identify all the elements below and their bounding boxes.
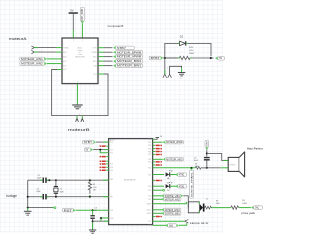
svg-text:1: 1 [167,68,168,70]
ground GND2 [178,73,185,76]
SECTION-TOP [9,7,225,132]
wire MOTEUR_AIN1 to U1 [47,58,62,60]
svg-text:TB6612FNG: TB6612FNG [75,56,86,58]
svg-text:1k: 1k [206,198,208,200]
net label MOTEUR_AIN2-2 [163,158,184,162]
svg-text:PD0: PD0 [148,159,151,161]
LED D4 [153,182,177,189]
wire label to U1 pin PWMB [81,23,83,38]
wire U1 to net BIN2 [98,60,104,62]
wire U1 PWMB to net [98,51,104,53]
wire U2 to inline 1k [153,224,166,226]
diode D2 [178,41,188,46]
wire C5 to ground [92,219,94,230]
svg-text:XT1: XT1 [148,221,151,223]
wire moteurA-2 to U1 [34,51,56,53]
svg-text:horloge: horloge [6,194,17,198]
junction node A [164,57,166,59]
wire C3 top [206,150,208,157]
wire R7 to R4 [212,207,231,209]
net label MOTEUR_AIN1 [20,57,47,61]
svg-text:PB4: PB4 [148,151,151,153]
svg-text:prise jack: prise jack [241,211,255,215]
wire node A up to diode D2 [165,43,180,58]
net label MOTEUR_AIN2 [20,62,47,66]
capacitor C1 [43,178,47,183]
LED D5 [153,170,177,177]
svg-text:Lampe de tir: Lampe de tir [190,221,209,225]
svg-text:MOTEUR_BIN2: MOTEUR_BIN2 [117,60,142,63]
svg-text:moteurB: moteurB [68,128,90,132]
resistor R4 [231,206,239,209]
label R4 [242,200,247,205]
net label SORTIE_HP (rotated) [190,170,194,198]
power 5V mini at U2 [153,138,155,140]
wire RESET to U2 [76,209,109,211]
wire C5 node to U2 XT2 [93,220,109,222]
wire crystal bottom stub [55,194,57,197]
wire XTAL1 rail [28,179,43,181]
wire stub with end [153,189,163,191]
svg-text:MOTEUR_APW1: MOTEUR_APW1 [165,209,181,212]
label R7 [216,201,220,206]
svg-text:PD3: PD3 [148,174,151,176]
wire C3 bottom [206,161,208,168]
label C2 22pF [36,188,41,193]
wire U1 GND pin down [76,84,78,105]
wire reset to C5 [92,210,94,215]
wire U2 to lamp pin [153,220,185,222]
svg-text:PB6: PB6 [110,179,113,181]
resistor R5 vertical [88,180,91,194]
LED D3 lamp [199,204,204,212]
svg-text:Haut-Parleur: Haut-Parleur [247,146,263,150]
label R6 [195,164,198,168]
net label 1k inline [165,224,179,228]
svg-text:PB5: PB5 [148,154,151,156]
net label MOTEUR_APWM1 [161,208,181,212]
junction C3 bottom [206,167,208,169]
resistor R13 [166,56,210,59]
junction left rail [27,196,29,198]
svg-text:PC6: PC6 [110,210,113,212]
svg-text:1kΩ: 1kΩ [169,225,173,227]
svg-text:MOTEUR_AIN2: MOTEUR_AIN2 [165,198,181,201]
pushbutton BT1 pin 1 [163,74,167,78]
junction [99,149,101,151]
svg-text:PD7: PD7 [148,199,151,201]
wire speaker rail [153,167,196,169]
svg-text:XT2: XT2 [148,225,151,227]
wire speaker bottom pin [221,167,228,169]
wire horloge bottom stub [28,207,54,209]
net label MOTEUR_AIN2b [161,198,181,202]
svg-text:1: 1 [73,41,74,43]
svg-text:MOTEUR_AIN1: MOTEUR_AIN1 [21,58,43,61]
svg-text:PC0: PC0 [110,142,113,144]
svg-text:10kΩ: 10kΩ [242,203,247,205]
svg-text:MOTEUR_BIN1: MOTEUR_BIN1 [117,65,142,68]
junction R5 top [89,179,91,181]
wire U2 row to loop [153,202,187,204]
svg-text:1M: 1M [93,189,96,191]
junction crystal top [48,179,50,181]
svg-text:2: 2 [82,41,83,43]
svg-text:PWMB: PWMB [92,52,97,54]
svg-text:STBY: STBY [84,142,93,144]
wire moteurA-1 to U1 AIN? [34,47,56,49]
wire U1 to net APWM [98,56,104,58]
U1 inner part text [75,47,86,59]
svg-text:PC2: PC2 [110,153,113,155]
junction rotated label [190,168,193,170]
svg-text:BO1: BO1 [93,74,96,76]
svg-text:PD1: PD1 [148,162,151,164]
resistor R13 value labels [189,47,194,55]
wire node B to net 5V [211,57,214,59]
svg-text:BTBT: BTBT [151,57,161,60]
net label MOTEUR_BIN2 [113,60,143,64]
label R5 1M [93,184,97,191]
pin label red PC5 [100,170,109,172]
svg-text:PD2: PD2 [148,168,151,170]
U2 pin labels right column [147,139,152,227]
pin labels red right rows [153,145,162,218]
svg-text:BIN2: BIN2 [93,56,97,58]
capacitor C5 [90,215,94,219]
SECTION-BOTTOM [6,136,263,233]
svg-text:5V: 5V [70,9,73,13]
svg-text:1kΩ: 1kΩ [216,203,220,205]
svg-text:PC1: PC1 [110,150,113,152]
svg-text:MOTEUR_AIN2: MOTEUR_AIN2 [166,158,183,161]
svg-text:SPKR1: SPKR1 [230,164,236,166]
svg-text:PB3: PB3 [148,148,151,150]
svg-text:RST: RST [64,210,74,212]
svg-text:PC5: PC5 [110,170,113,172]
capacitor C2 [43,194,47,199]
svg-text:MOTEUR_AIN2: MOTEUR_AIN2 [21,63,43,66]
U2 pin labels left column [110,139,114,220]
net label STBY [113,46,134,50]
pin label red left extra2 [100,156,109,158]
net label HP top (rotated) [205,139,209,149]
net label 5V [215,56,225,60]
wire XTAL2 rail [28,196,43,198]
junction crystal bottom [55,196,57,198]
wire SORTIE to lamp loop [183,196,188,208]
wire U1 to net BIN1 [98,65,104,67]
svg-text:GND2: GND2 [147,213,152,215]
label C1 22pF [37,175,42,180]
svg-text:MOTEUR_APWM: MOTEUR_APWM [166,141,182,144]
net label 470-1 [175,173,187,177]
wire D2 to node B [188,43,211,56]
svg-text:470Ω: 470Ω [179,175,185,177]
wire speaker top pin [207,153,228,160]
wire U2 to net AIN2b [153,198,162,200]
svg-text:moteurA: moteurA [9,37,27,41]
wire U2 to net APWM [153,141,163,143]
wire crystal top stub [55,180,57,186]
power 5V [69,12,78,14]
wire MOTEUR_AIN2 to U1 [47,63,62,65]
svg-text:PB2: PB2 [148,145,151,147]
wire U2 reset jumper [101,218,109,221]
junction speaker top wire [206,152,208,154]
wire button pin2 to ground [170,66,182,74]
ground GND4 [89,230,96,233]
label C5 [95,207,97,211]
wire U2-left-2 with branch [93,149,109,151]
svg-text:5V: 5V [219,58,222,60]
wire R6 to C3 node [201,167,221,169]
connector pin lamp [185,220,189,223]
svg-text:PC4: PC4 [110,167,113,169]
label C3 [194,157,199,162]
svg-text:470Ω: 470Ω [179,186,185,188]
svg-text:PC3: PC3 [110,164,113,166]
junction reset [92,209,94,211]
wire U2 to net SORTIE [153,195,162,197]
wire R4 to jack [239,207,251,209]
ground GND1 [72,105,83,109]
svg-text:PB1: PB1 [148,142,151,144]
wire node A down to button [164,58,166,74]
U1 pin labels right column [92,47,98,76]
wire horloge left vertical [27,180,29,207]
op U1 motor driver TB6612FNG body [62,38,98,84]
svg-text:SORTIE_BB1: SORTIE_BB1 [165,214,181,216]
svg-text:MOT_PWM: MOT_PWM [82,9,84,21]
svg-text:STBY: STBY [117,47,127,50]
wire U1 AO2 loop to moteurB rail [52,70,108,116]
op U2 microcontroller ATMEGA328 body [109,139,153,225]
svg-text:100: 100 [195,166,198,168]
label Y1 16MHz [60,189,64,194]
junction node B [210,57,212,59]
svg-text:MOTEUR_BPWM: MOTEUR_BPWM [117,51,141,54]
connector pin moteurB-2 [81,116,83,119]
wire U2 to net APWM1 [153,209,162,211]
net label MOTEUR_APWM-2 [163,141,184,145]
capacitor C3 [204,157,210,161]
junction jumper [100,217,102,219]
svg-text:MOTEUR_APWM: MOTEUR_APWM [117,56,141,59]
net label U2-left-2 [84,148,93,152]
svg-text:Composant5: Composant5 [108,24,124,28]
svg-text:16M: 16M [60,191,64,193]
svg-text:BIN1: BIN1 [93,61,97,63]
lamp loop wires [188,202,199,213]
svg-text:SORTIE_HPARL: SORTIE_HPARL [190,171,193,197]
net label BTBT [149,56,163,60]
net label U2-left-1 [82,140,96,144]
U1 pin labels top/bottom [73,41,83,84]
ground GND3 [24,208,32,216]
wire BTBT to node A [163,57,179,59]
pushbutton BT1 pin 2 [168,74,172,78]
U1 pin labels left column [63,46,69,71]
svg-text:PD6: PD6 [148,196,151,198]
resistor R6 inline [195,166,206,169]
junction R5 bottom [89,196,91,198]
wire U2 to net SORTIE_BB [153,212,162,214]
svg-text:D2: D2 [180,34,184,38]
wire U2-left-1 [96,141,109,143]
svg-text:PD4: PD4 [148,186,151,188]
connector pin moteurA-2 [31,50,34,53]
wire 5V stem to U1 pin VM [72,14,74,30]
net label RESET [62,209,75,213]
net label SORTIE_BB1 [161,212,181,216]
wire U2 to net AIN2 [153,158,163,160]
wire 1k to lamp node [179,223,187,225]
svg-text:BO2: BO2 [63,69,66,71]
net label SORTIE_LIB [161,194,183,198]
connector pin moteurA-1 [31,46,34,49]
net label MOTEUR_PWMA (rotated) [80,7,84,23]
svg-text:PB7: PB7 [110,197,113,199]
speaker SP1 [228,152,244,177]
net label JACK [251,206,263,210]
svg-text:1: 1 [79,114,80,116]
net label MOTEUR_APWM [113,55,143,59]
crystal Y1 [54,187,58,194]
net label MOTEUR_BIN1 [113,64,143,68]
junction ground [27,207,29,209]
svg-text:JAC: JAC [255,207,260,210]
resistor R7 [205,206,212,209]
svg-text:1u: 1u [95,210,97,212]
junction C5 bottom node [92,220,94,222]
svg-text:ATMEGA328: ATMEGA328 [124,178,136,181]
svg-text:D4: D4 [167,190,169,192]
wire U1 STBY to net STBY [98,47,104,49]
pin label red PC3 [100,163,109,165]
svg-text:±5%: ±5% [189,50,193,52]
net label 470-2 [175,185,187,189]
svg-text:PD5: PD5 [148,190,151,192]
pin label red left extra1 [100,145,109,147]
svg-text:10kΩ: 10kΩ [189,53,194,55]
pin label red PC2b [100,161,109,163]
pin label red PC4 [100,167,109,169]
net label MOTEUR_BPWM [113,51,143,55]
connector pin moteurB-1 [76,116,78,119]
svg-text:5V: 5V [86,150,89,152]
